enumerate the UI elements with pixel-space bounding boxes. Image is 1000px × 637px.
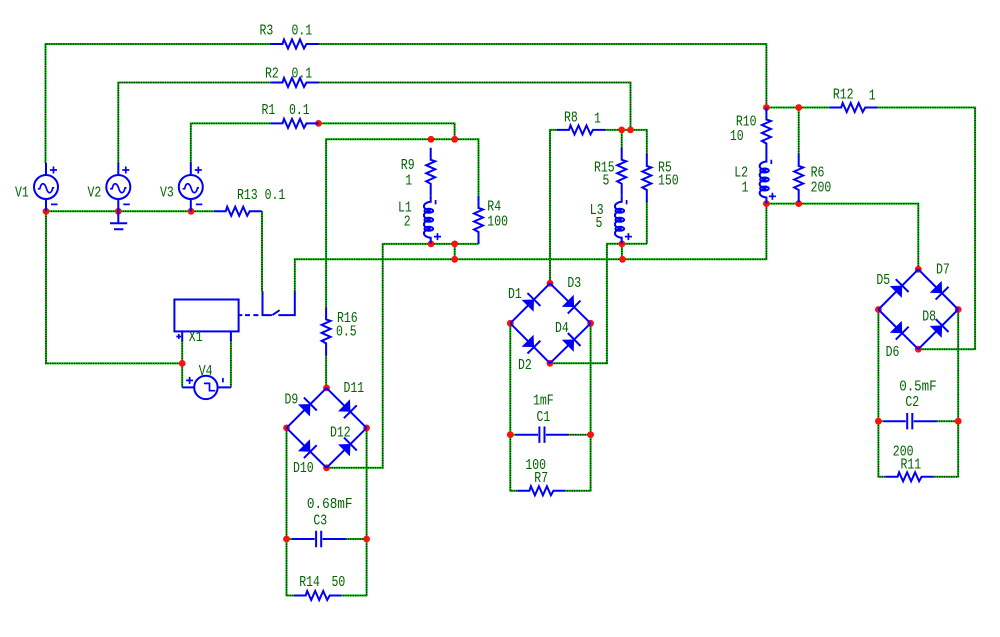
resistor R7 bbox=[517, 486, 565, 495]
svg-text:1: 1 bbox=[594, 111, 601, 128]
resistor R14 bbox=[294, 591, 342, 600]
resistor R15 bbox=[617, 148, 626, 196]
wire bridge D5 right leg down to R11 bbox=[934, 312, 959, 476]
wire top row R16/R9/R4 bbox=[326, 139, 478, 307]
inductor L2 bbox=[760, 156, 767, 204]
junction (431,139) bbox=[428, 136, 435, 143]
ground bbox=[110, 211, 127, 229]
diode D9 bbox=[287, 388, 327, 428]
wire bridge D9 right leg down to R14 bbox=[342, 431, 367, 596]
junction (878,421) bbox=[875, 418, 882, 425]
diode D3 bbox=[550, 283, 591, 323]
junction (118,211) bbox=[115, 208, 122, 215]
junction (799,108) bbox=[795, 104, 802, 111]
wire R2 right to R8 node bbox=[319, 83, 631, 130]
junction (455,244) bbox=[451, 241, 458, 248]
wire switch right along long bus to L2 bottom bbox=[295, 204, 767, 292]
junction (766,108) bbox=[763, 104, 770, 111]
wire V1 top to R3 left bbox=[46, 44, 271, 163]
junction (622,244) bbox=[619, 240, 626, 247]
junction (799,204) bbox=[795, 200, 802, 207]
junction (630,130) bbox=[627, 126, 634, 133]
diode D12 bbox=[327, 428, 367, 468]
svg-text:D3: D3 bbox=[567, 275, 581, 292]
svg-text:100: 100 bbox=[487, 214, 508, 231]
svg-text:5: 5 bbox=[596, 215, 603, 232]
junction (550,363) bbox=[547, 360, 554, 367]
wire bridge D9 left leg down to R14 bbox=[287, 431, 294, 596]
junction (510,323) bbox=[507, 320, 514, 327]
svg-text:1: 1 bbox=[869, 87, 876, 104]
polarity marks L1 bbox=[434, 200, 441, 240]
svg-text:R9: R9 bbox=[401, 157, 415, 174]
junction (958,421) bbox=[955, 418, 962, 425]
wire V2 top to R2 left bbox=[118, 83, 270, 164]
wire V1 bottom down to X1 pin bbox=[46, 211, 182, 363]
junction (622,259) bbox=[619, 256, 626, 263]
wire R13 right down to switch bbox=[261, 211, 263, 291]
svg-text:R11: R11 bbox=[901, 457, 922, 474]
svg-text:D4: D4 bbox=[555, 320, 569, 337]
polarity marks L2 bbox=[769, 160, 776, 200]
polarity marks L3 bbox=[625, 200, 632, 240]
svg-text:D11: D11 bbox=[344, 380, 365, 397]
svg-text:0.5: 0.5 bbox=[336, 324, 357, 341]
svg-text:0.1: 0.1 bbox=[292, 65, 313, 82]
wire bridge D5 left leg down to R11 bbox=[878, 312, 885, 476]
svg-text:D1: D1 bbox=[508, 286, 522, 303]
voltage source V4 bbox=[182, 376, 231, 399]
junction (182,363) bbox=[179, 360, 186, 367]
wire R3 right to R10 node bbox=[319, 44, 767, 108]
svg-text:150: 150 bbox=[658, 172, 679, 189]
diode D2 bbox=[510, 323, 550, 363]
junction (367,428) bbox=[363, 425, 370, 432]
wire R5 bottom row to bridge D1 bottom bbox=[553, 244, 647, 363]
diode D1 bbox=[510, 283, 550, 323]
wire V3 top to R1 left bbox=[191, 123, 271, 163]
svg-text:200: 200 bbox=[811, 180, 832, 197]
resistor R10 bbox=[762, 108, 771, 156]
junction (326,388) bbox=[323, 385, 330, 392]
svg-text:X1: X1 bbox=[189, 329, 203, 346]
diode D10 bbox=[287, 428, 327, 468]
svg-text:2: 2 bbox=[404, 214, 411, 231]
diode D5 bbox=[878, 269, 918, 309]
resistor R5 bbox=[642, 154, 651, 202]
wire bottom row R4/L1 to bridge D9 bottom bbox=[329, 244, 478, 468]
wire C2 stubs bbox=[878, 420, 958, 422]
voltage source V1 bbox=[34, 163, 58, 211]
wire bridge D1 top to R8 left bbox=[550, 130, 557, 281]
svg-text:D9: D9 bbox=[285, 391, 299, 408]
wire R16 bottom to bridge top bbox=[325, 355, 327, 385]
capacitor C3 bbox=[292, 531, 346, 547]
resistor R2 bbox=[271, 78, 319, 87]
svg-text:1: 1 bbox=[742, 179, 749, 196]
wire bridge D1 right leg down to R7 bbox=[565, 326, 590, 491]
junction (918,349) bbox=[915, 346, 922, 353]
wire R6 bottom stub bbox=[798, 202, 800, 204]
resistor R11 bbox=[886, 472, 934, 481]
resistor R13 bbox=[214, 207, 262, 216]
wire R1 right to node row bbox=[319, 123, 455, 139]
diode D8 bbox=[918, 310, 958, 350]
svg-text:0.1: 0.1 bbox=[289, 102, 310, 119]
junction (46,211) bbox=[43, 208, 50, 215]
svg-text:10: 10 bbox=[730, 128, 744, 145]
svg-text:V4: V4 bbox=[199, 363, 213, 380]
junction (318,123) bbox=[315, 120, 322, 127]
svg-text:1: 1 bbox=[405, 172, 412, 189]
junction (591,323) bbox=[587, 320, 594, 327]
resistor R16 bbox=[322, 307, 331, 355]
resistor R6 bbox=[794, 154, 803, 202]
junction (326,468) bbox=[323, 464, 330, 471]
svg-text:R14: R14 bbox=[299, 574, 320, 591]
junction (191,211) bbox=[188, 208, 195, 215]
svg-text:D7: D7 bbox=[936, 261, 950, 278]
junction (550,283) bbox=[547, 280, 554, 287]
wire R5 bottom bbox=[646, 202, 648, 244]
svg-text:0.68mF: 0.68mF bbox=[307, 496, 353, 513]
junction (455,259) bbox=[451, 256, 458, 263]
svg-text:D6: D6 bbox=[886, 344, 900, 361]
wire R8 right to R5 top bbox=[605, 130, 647, 154]
dashed link X1 to switch bbox=[245, 314, 261, 316]
resistor R9 bbox=[426, 148, 435, 196]
diode D7 bbox=[918, 269, 958, 309]
wire R12 right down to bridge D5 bottom bbox=[877, 108, 975, 350]
voltage source V3 bbox=[179, 163, 203, 211]
wire C3 stubs bbox=[287, 538, 367, 540]
junction (367,539) bbox=[363, 536, 370, 543]
svg-text:5: 5 bbox=[603, 172, 610, 189]
wire R10 node to R12 left bbox=[766, 107, 829, 109]
wire L2 bottom row to bridge D5 top bbox=[766, 204, 918, 267]
diode D6 bbox=[878, 310, 918, 350]
svg-text:D12: D12 bbox=[330, 425, 351, 442]
resistor R3 bbox=[271, 40, 319, 49]
diode D4 bbox=[550, 323, 591, 363]
wire C1 stubs bbox=[510, 434, 590, 436]
junction (878,310) bbox=[875, 306, 882, 313]
wire node drop to long bus bbox=[454, 244, 456, 259]
wire node to R15 top bbox=[621, 130, 623, 148]
svg-text:D10: D10 bbox=[293, 460, 314, 477]
junction (766,204) bbox=[763, 200, 770, 207]
svg-text:R2: R2 bbox=[265, 65, 279, 82]
svg-text:0.1: 0.1 bbox=[292, 23, 313, 40]
junction (918,269) bbox=[915, 266, 922, 273]
svg-text:D8: D8 bbox=[922, 309, 936, 326]
inductor L1 bbox=[424, 196, 431, 244]
wire node to R6 top bbox=[798, 108, 800, 155]
svg-text:R7: R7 bbox=[534, 470, 548, 487]
diode D11 bbox=[327, 388, 367, 428]
svg-text:C1: C1 bbox=[537, 409, 551, 426]
junction (286,428) bbox=[283, 425, 290, 432]
junction (622,130) bbox=[618, 126, 625, 133]
voltage source V2 bbox=[106, 163, 130, 211]
junction (455,139) bbox=[451, 136, 458, 143]
svg-text:50: 50 bbox=[332, 574, 346, 591]
svg-text:R3: R3 bbox=[260, 23, 274, 40]
svg-text:C3: C3 bbox=[313, 513, 327, 530]
svg-text:V1: V1 bbox=[15, 185, 29, 202]
svg-text:0.5mF: 0.5mF bbox=[899, 379, 937, 396]
inductor L3 bbox=[615, 196, 622, 244]
resistor R1 bbox=[271, 119, 319, 128]
wire X1 left pin to V4 plus bbox=[181, 341, 183, 387]
junction (958,310) bbox=[955, 306, 962, 313]
svg-text:V3: V3 bbox=[160, 185, 174, 202]
resistor R4 bbox=[474, 196, 483, 244]
svg-text:R8: R8 bbox=[564, 110, 578, 127]
svg-text:R1: R1 bbox=[262, 102, 276, 119]
wire V4 minus up to X1 right pin bbox=[230, 341, 232, 387]
subcircuit X1 box bbox=[174, 300, 242, 342]
junction (510,435) bbox=[507, 431, 514, 438]
svg-text:R12: R12 bbox=[833, 86, 854, 103]
svg-text:D5: D5 bbox=[876, 272, 890, 289]
capacitor C1 bbox=[516, 427, 568, 443]
junction (431,244) bbox=[428, 241, 435, 248]
junction (286,539) bbox=[283, 536, 290, 543]
svg-text:1mF: 1mF bbox=[533, 393, 554, 410]
svg-text:C2: C2 bbox=[905, 394, 919, 411]
wire L3 bottom drop to long bus bbox=[621, 244, 623, 259]
switch contacts bbox=[263, 291, 295, 315]
capacitor C2 bbox=[884, 413, 937, 429]
wire source bottom rail to R13 bbox=[46, 210, 214, 212]
svg-text:V2: V2 bbox=[88, 185, 102, 202]
svg-text:R13 0.1: R13 0.1 bbox=[237, 187, 285, 204]
svg-text:D2: D2 bbox=[518, 357, 532, 374]
resistor R8 bbox=[557, 125, 605, 134]
wire bridge D1 left leg down to R7 bbox=[510, 326, 517, 491]
resistor R12 bbox=[829, 103, 877, 112]
junction (591,435) bbox=[587, 431, 594, 438]
